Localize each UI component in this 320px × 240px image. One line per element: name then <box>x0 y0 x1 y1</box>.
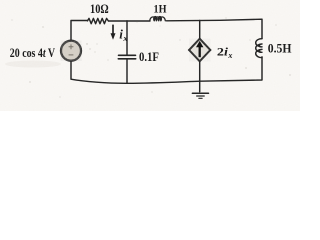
svg-text:1H: 1H <box>154 2 168 16</box>
svg-text:0.5H: 0.5H <box>268 41 292 55</box>
svg-text:0.1F: 0.1F <box>139 49 159 64</box>
svg-text:20 cos 4t V: 20 cos 4t V <box>10 46 55 60</box>
svg-text:x: x <box>227 51 232 60</box>
svg-text:2i: 2i <box>217 45 229 59</box>
svg-text:x: x <box>122 33 128 43</box>
svg-text:10Ω: 10Ω <box>90 1 109 16</box>
